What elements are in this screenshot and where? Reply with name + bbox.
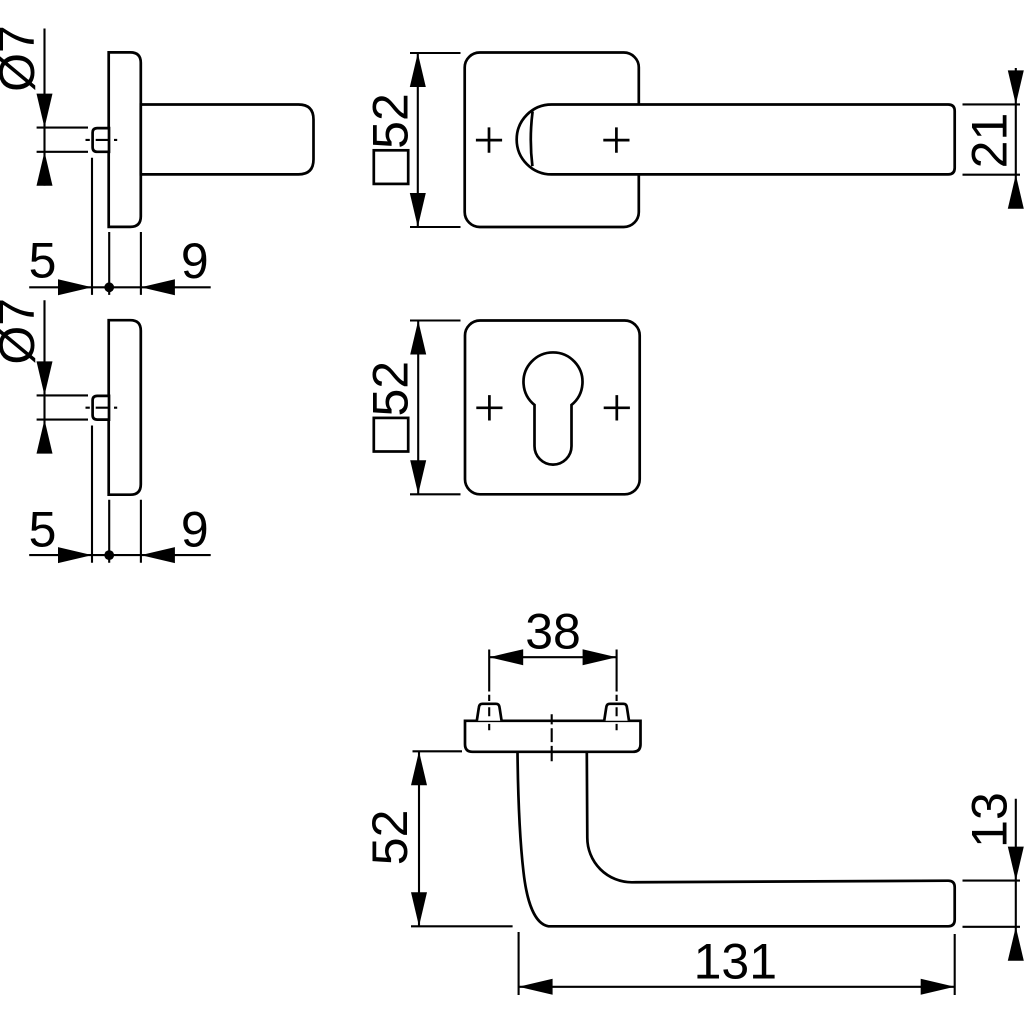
svg-text:9: 9 <box>181 501 209 557</box>
svg-text:52: 52 <box>362 361 418 417</box>
svg-text:13: 13 <box>962 792 1018 848</box>
svg-text:9: 9 <box>181 233 209 289</box>
svg-text:5: 5 <box>29 501 57 557</box>
svg-text:Ø7: Ø7 <box>0 298 45 365</box>
svg-text:52: 52 <box>362 93 418 149</box>
svg-text:21: 21 <box>962 113 1018 169</box>
svg-text:Ø7: Ø7 <box>0 25 45 92</box>
svg-text:52: 52 <box>362 810 418 866</box>
svg-text:38: 38 <box>525 603 581 659</box>
svg-text:5: 5 <box>29 232 57 288</box>
svg-text:131: 131 <box>694 933 777 989</box>
